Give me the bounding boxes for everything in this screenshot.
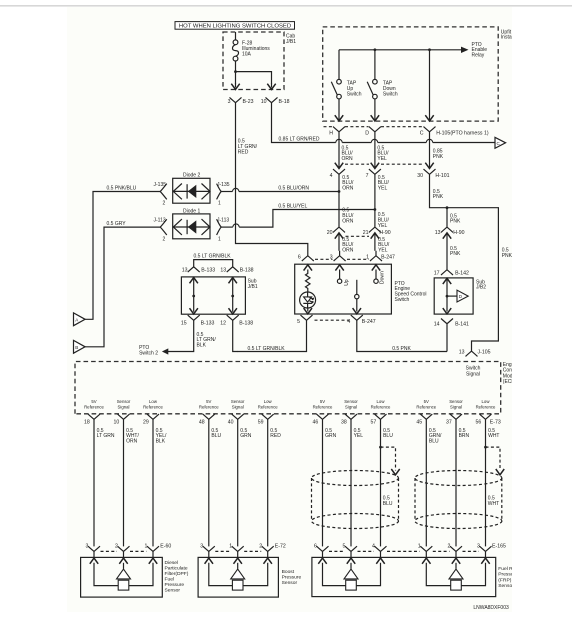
junction dot TAP Down tee <box>374 48 377 51</box>
diode 2 internals <box>173 184 210 200</box>
svg-text:B-247: B-247 <box>362 319 376 325</box>
svg-text:10: 10 <box>114 420 120 426</box>
Diesel Particulate Filter DPF Fuel Pressure Sensor box <box>81 557 163 597</box>
svg-text:BLU: BLU <box>383 433 393 439</box>
wire fuse down to B-23 arrow <box>235 72 237 84</box>
svg-text:YEL: YEL <box>377 156 387 162</box>
svg-text:5: 5 <box>297 319 300 325</box>
svg-text:0.5 PNK/BLU: 0.5 PNK/BLU <box>107 186 137 192</box>
Sub J/B1 box <box>181 277 245 314</box>
relay feed wire down <box>429 50 431 120</box>
connector E-60 pin 1 <box>147 546 159 551</box>
label 0.5 PNK far right (clipped) <box>502 248 513 259</box>
svg-text:1: 1 <box>145 544 148 550</box>
svg-text:12: 12 <box>220 320 226 326</box>
svg-text:1: 1 <box>218 236 221 242</box>
svg-text:Down: Down <box>379 271 385 284</box>
svg-text:LT GRN: LT GRN <box>97 433 115 439</box>
svg-text:Sensor: Sensor <box>449 399 463 404</box>
switch blade common <box>356 280 358 295</box>
connector H-105 pin C <box>424 127 436 132</box>
connector E-73 pin 37 <box>450 414 462 419</box>
svg-text:Low: Low <box>482 399 491 404</box>
wire 0.5 LT GRN/BLK loop over Sub J/B1 <box>194 260 233 267</box>
stem into sensor box <box>455 551 457 557</box>
wire from ECM pin 29 down <box>152 419 154 546</box>
svg-text:J/B1: J/B1 <box>248 284 258 290</box>
connector E-60 pin 3 <box>88 546 100 551</box>
svg-text:Diode 1: Diode 1 <box>183 208 200 214</box>
arrow up into sensor box <box>119 558 127 564</box>
connector E-73 pin 10 <box>118 414 130 419</box>
svg-text:Signal: Signal <box>232 405 244 410</box>
title box HOT WHEN LIGHTING SWITCH CLOSED <box>175 22 295 30</box>
svg-text:38: 38 <box>341 420 347 426</box>
svg-text:ORN: ORN <box>342 248 354 254</box>
connector H-90 pin 13 <box>441 227 453 232</box>
svg-text:5V: 5V <box>91 399 96 404</box>
connector J-135 pin 2 (left) <box>160 184 167 200</box>
connector E-73 pin 46 <box>317 414 329 419</box>
svg-text:WHT: WHT <box>488 501 499 507</box>
connector E-73 pin 45 <box>420 414 432 419</box>
connector B-247 pin 1 <box>370 256 382 261</box>
arrow up Up contact <box>335 265 343 271</box>
scan area tint <box>67 7 512 612</box>
wire 0.5 PNK/BLU from A up to diode 2 <box>85 192 160 320</box>
svg-text:RED: RED <box>270 433 281 439</box>
connector J-113 pin 2 (left) <box>160 219 167 235</box>
svg-text:0.5 LT GRN/BLK: 0.5 LT GRN/BLK <box>248 346 286 352</box>
svg-text:B-133: B-133 <box>201 320 215 326</box>
svg-text:3: 3 <box>477 544 480 550</box>
connector B-247 pin 5 <box>301 315 313 320</box>
svg-text:2: 2 <box>115 544 118 550</box>
svg-text:RED: RED <box>238 149 249 155</box>
arrow up into sensor box <box>347 558 355 564</box>
svg-text:GRN: GRN <box>240 433 252 439</box>
connector chain dashes <box>387 550 420 552</box>
stem into sensor box <box>350 551 352 557</box>
svg-text:13: 13 <box>182 267 188 273</box>
arrow up into sensor box <box>481 558 489 564</box>
shield cylinder <box>312 471 399 486</box>
svg-text:Diode 2: Diode 2 <box>183 173 200 179</box>
svg-text:PNK: PNK <box>433 154 444 160</box>
svg-text:E-73: E-73 <box>490 420 501 426</box>
svg-text:Pressure: Pressure <box>282 575 302 581</box>
arrow up into sensor box <box>90 558 98 564</box>
svg-text:2: 2 <box>163 201 166 207</box>
wire 0.5 BLU/YEL diode1 out <box>221 226 233 228</box>
connector E-73 pin 57 <box>375 414 387 419</box>
svg-text:PNK: PNK <box>502 253 513 259</box>
svg-text:Reference: Reference <box>84 405 104 410</box>
svg-text:ORN: ORN <box>342 186 354 192</box>
stem into sensor box <box>425 551 427 557</box>
connector B-247 pin 4 <box>351 315 363 320</box>
svg-text:45: 45 <box>416 420 422 426</box>
svg-text:2: 2 <box>448 544 451 550</box>
connector H-101 pin 30 <box>425 163 433 169</box>
arrowhead to PTO Switch 2 <box>162 348 168 354</box>
svg-text:14: 14 <box>434 321 440 327</box>
svg-text:18: 18 <box>84 420 90 426</box>
arrow up into sensor box <box>205 558 213 564</box>
junction dot PNK tee <box>446 206 449 209</box>
svg-text:5: 5 <box>343 544 346 550</box>
bus wire to PTO Enable Relay <box>339 49 464 51</box>
arrow up into sensor box <box>452 558 460 564</box>
wire B-247 pin4 down-right to B-141 <box>357 320 447 351</box>
connector chain dashes <box>358 550 375 552</box>
arrow up into sensor box <box>234 558 242 564</box>
svg-text:ORN: ORN <box>126 439 138 445</box>
Sub J/B2 box <box>434 278 473 314</box>
svg-text:5V: 5V <box>206 399 211 404</box>
arrow up Down contact <box>372 265 380 271</box>
Sub J/B1 left internal wire <box>193 277 195 312</box>
svg-text:Relay: Relay <box>472 53 485 59</box>
svg-text:B-141: B-141 <box>455 321 469 327</box>
connector chain dashes <box>130 550 147 552</box>
svg-text:C: C <box>420 130 424 136</box>
transducer symbol <box>426 563 485 586</box>
wire 0.5 BLU/YEL col D lower <box>374 233 376 251</box>
svg-text:1: 1 <box>229 544 232 550</box>
svg-text:2: 2 <box>163 236 166 242</box>
wire from ECM pin 59 down <box>267 419 269 546</box>
wire 0.5 BLU/ORN col H mid <box>338 174 340 227</box>
top gray rule <box>0 5 572 7</box>
arrow up into sensor box <box>422 558 430 564</box>
svg-text:B-133: B-133 <box>201 267 215 273</box>
svg-text:1: 1 <box>366 254 369 260</box>
Upfit dashed box <box>323 27 499 121</box>
transducer symbol <box>323 563 381 586</box>
connector E-73 pin 48 <box>203 414 215 419</box>
svg-text:5V: 5V <box>320 399 325 404</box>
svg-text:Reference: Reference <box>258 405 278 410</box>
Diode 1 box <box>173 214 210 239</box>
connector E-165 pin 1 <box>420 546 432 551</box>
svg-text:0.5 PNK: 0.5 PNK <box>392 346 411 352</box>
wire PNK to far right <box>446 208 499 352</box>
svg-text:4: 4 <box>347 319 350 325</box>
svg-text:Diesel: Diesel <box>165 560 179 566</box>
svg-text:B-23: B-23 <box>243 99 254 105</box>
svg-text:29: 29 <box>143 420 149 426</box>
arrow at box bottom col C <box>425 115 433 121</box>
svg-text:3: 3 <box>200 544 203 550</box>
wire from ECM pin 38 down <box>350 419 352 546</box>
Up contact <box>339 270 341 280</box>
svg-text:13: 13 <box>459 350 465 356</box>
svg-text:Boost: Boost <box>282 569 295 575</box>
svg-text:0.5 GRY: 0.5 GRY <box>107 221 127 227</box>
triangle A <box>74 313 86 326</box>
wire 0.5 BLU/YEL col D mid <box>374 174 376 227</box>
connector J-135 pin 1 (right) <box>217 184 222 200</box>
wire 0.5 PNK to B-142 <box>446 233 448 270</box>
stem into sensor box <box>380 551 382 557</box>
svg-text:B-247: B-247 <box>381 254 395 260</box>
wire 0.85 LT GRN/RED from B-18 right with hops <box>272 103 336 143</box>
arrowhead to relay <box>461 47 469 53</box>
connector B-247 pin 6 <box>302 256 314 261</box>
connector E-73 pin 18 <box>88 414 100 419</box>
svg-text:B-142: B-142 <box>455 271 469 277</box>
svg-text:5V: 5V <box>424 399 429 404</box>
svg-text:Reference: Reference <box>371 405 391 410</box>
svg-text:Switch 2: Switch 2 <box>139 351 158 357</box>
svg-text:30: 30 <box>417 173 423 179</box>
arrow at box bottom col H <box>335 115 343 121</box>
svg-text:6: 6 <box>314 544 317 550</box>
connector H-105 chain dashes <box>324 126 424 128</box>
label Engine Control Module (clipped) <box>503 362 520 385</box>
svg-text:21: 21 <box>363 230 369 236</box>
svg-text:Fuel: Fuel <box>165 577 175 583</box>
svg-text:J/B1: J/B1 <box>286 39 296 45</box>
connector H-105 pin D <box>369 127 381 132</box>
connector E-72 pin 2 <box>262 546 274 551</box>
diode D inside Sub J/B2 <box>447 295 457 297</box>
PTO Engine Speed Control Switch box <box>295 264 392 314</box>
connector J-113 pin 1 (right) <box>217 219 222 235</box>
svg-text:Low: Low <box>377 399 386 404</box>
svg-text:Low: Low <box>264 399 273 404</box>
arrow into box bottom above B-23 <box>231 84 239 90</box>
arrow into box bottom above B-18 <box>267 84 275 90</box>
TAP Down Switch <box>367 50 377 120</box>
connector B-138 pin 13 <box>227 267 239 272</box>
svg-text:3: 3 <box>330 254 333 260</box>
svg-text:PNK: PNK <box>450 219 461 225</box>
connector E-73 pin 59 <box>262 414 274 419</box>
wire from ECM pin 46 down <box>322 419 324 546</box>
arrow up lamp branch <box>304 265 312 271</box>
wire B-247 pin5 down-left to B-138 <box>237 320 306 351</box>
connector B-18 pin 10 <box>266 97 278 102</box>
arrow up into sensor box <box>264 558 272 564</box>
svg-text:20: 20 <box>327 230 333 236</box>
svg-text:B: B <box>75 345 78 350</box>
connector H-105 pin H <box>333 127 345 132</box>
svg-text:BLK: BLK <box>197 343 207 349</box>
ECM dashed box <box>75 362 501 414</box>
connector B-133 pin 15 <box>188 315 200 320</box>
connector B-23 pin 3 <box>230 97 242 102</box>
wire 0.5 PNK col C mid <box>430 174 446 208</box>
svg-text:46: 46 <box>313 420 319 426</box>
svg-text:ORN: ORN <box>342 219 354 225</box>
connector H-90 pin 20 <box>333 227 345 232</box>
svg-text:56: 56 <box>476 420 482 426</box>
svg-text:YEL: YEL <box>354 433 364 439</box>
stem into sensor box <box>267 551 269 557</box>
Sub J/B2 internal wire <box>446 278 448 312</box>
wire from ECM pin 48 down <box>208 419 210 546</box>
wire 0.5 BLU/ORN diode2 out <box>221 191 232 193</box>
connector E-73 pin 29 <box>147 414 159 419</box>
junction dot diode2 join <box>338 190 341 193</box>
wire 0.5 BLU/ORN col H lower <box>338 233 340 251</box>
svg-text:GRN: GRN <box>325 433 337 439</box>
svg-text:Pressure: Pressure <box>165 582 185 588</box>
svg-text:17: 17 <box>434 271 440 277</box>
svg-text:Low: Low <box>149 399 158 404</box>
svg-text:J-113: J-113 <box>217 217 229 223</box>
svg-text:0.5 BLU/ORN: 0.5 BLU/ORN <box>278 186 309 192</box>
connector E-72 pin 3 <box>203 546 215 551</box>
svg-text:H-105(PTO harness 1): H-105(PTO harness 1) <box>436 130 489 136</box>
svg-text:ORN: ORN <box>342 156 354 162</box>
wire B-133/15 to PTO Switch 2 <box>168 320 194 351</box>
svg-text:B-18: B-18 <box>279 99 290 105</box>
svg-text:13: 13 <box>435 230 441 236</box>
svg-text:E-60: E-60 <box>160 544 171 550</box>
svg-text:H-101: H-101 <box>435 173 449 179</box>
svg-text:J-135: J-135 <box>217 182 230 188</box>
svg-text:YEL: YEL <box>378 223 388 229</box>
svg-text:Signal: Signal <box>118 405 130 410</box>
connector E-60 pin 2 <box>118 546 130 551</box>
svg-text:13: 13 <box>220 267 226 273</box>
Down contact <box>375 270 377 280</box>
transducer symbol <box>209 563 268 586</box>
wire from ECM pin 40 down <box>237 419 239 546</box>
svg-text:Sensor: Sensor <box>344 399 358 404</box>
connector E-73 pin 40 <box>232 414 244 419</box>
svg-text:10A: 10A <box>242 51 252 57</box>
connector H-101 chain dashes <box>345 163 423 165</box>
svg-text:J-105: J-105 <box>478 350 491 356</box>
stems into B-247 pins <box>340 251 376 256</box>
svg-text:Reference: Reference <box>199 405 219 410</box>
Cab J/B1 dashed box <box>223 32 284 90</box>
wire 0.5 GRY from B up to diode 1 <box>85 227 160 347</box>
junction dot diode1 join <box>374 208 377 211</box>
stem into sensor box <box>123 551 125 557</box>
stem into sensor box <box>322 551 324 557</box>
diode 1 internals <box>173 219 210 235</box>
stem into sensor box <box>152 551 154 557</box>
svg-text:Sensor: Sensor <box>498 583 514 589</box>
svg-text:57: 57 <box>371 420 377 426</box>
stem into sensor box <box>237 551 239 557</box>
svg-text:PNK: PNK <box>450 251 461 257</box>
connector chain dashes <box>101 550 118 552</box>
arrow at box bottom col D <box>371 115 379 121</box>
connector B-141 pin 14 <box>441 319 453 324</box>
svg-text:3: 3 <box>86 544 89 550</box>
connector E-73 pin 56 <box>480 414 492 419</box>
svg-text:BRN: BRN <box>459 433 470 439</box>
junction at fuse output <box>234 70 237 73</box>
svg-text:Switch: Switch <box>347 91 362 97</box>
svg-text:E-72: E-72 <box>275 544 286 550</box>
svg-text:59: 59 <box>258 420 264 426</box>
svg-text:Switch: Switch <box>383 91 398 97</box>
fuse F-28 Illuminations 10A <box>232 32 238 72</box>
svg-text:Signal: Signal <box>466 371 480 377</box>
shield drain wire <box>379 446 382 449</box>
wire from ECM pin 18 down <box>93 419 95 546</box>
svg-text:BLU: BLU <box>383 501 393 507</box>
shield drain wire <box>484 446 487 449</box>
svg-text:B-138: B-138 <box>239 320 253 326</box>
svg-text:H: H <box>329 130 333 136</box>
svg-text:Sensor: Sensor <box>231 399 245 404</box>
svg-text:1: 1 <box>418 544 421 550</box>
wire 0.85 PNK col C upper <box>429 132 431 167</box>
Sub J/B1 right internal wire <box>232 277 234 312</box>
svg-text:0.5 BLU/YEL: 0.5 BLU/YEL <box>278 204 307 210</box>
connector B-133 pin 13 <box>188 267 200 272</box>
Diode 2 box <box>173 178 210 203</box>
label Upfit Installed (clipped at right) <box>501 29 520 40</box>
connector chain dashes <box>463 550 480 552</box>
svg-text:4: 4 <box>330 173 333 179</box>
connector E-165 pin 5 <box>345 546 357 551</box>
svg-text:H-90: H-90 <box>453 230 464 236</box>
svg-text:1: 1 <box>218 201 221 207</box>
Boost Pressure Sensor box <box>198 557 278 597</box>
svg-text:37: 37 <box>446 420 452 426</box>
svg-text:10: 10 <box>261 99 267 105</box>
stem into sensor box <box>208 551 210 557</box>
connector B-142 pin 17 <box>441 270 453 275</box>
svg-text:40: 40 <box>228 420 234 426</box>
LED indicator <box>300 292 316 308</box>
svg-text:BLU: BLU <box>211 433 221 439</box>
svg-text:Reference: Reference <box>143 405 163 410</box>
arrow up into sensor box <box>149 558 157 564</box>
svg-text:YEL: YEL <box>378 248 388 254</box>
resistor <box>306 270 311 292</box>
svg-text:WHT: WHT <box>488 433 499 439</box>
svg-text:LNWA8DXF003: LNWA8DXF003 <box>473 605 509 611</box>
svg-text:PNK: PNK <box>433 194 444 200</box>
connector E-165 pin 3 <box>480 546 492 551</box>
off-page arrow C <box>495 137 506 148</box>
svg-text:Reference: Reference <box>416 405 436 410</box>
arrow up into sensor box <box>376 558 384 564</box>
svg-text:0.85 LT GRN/RED: 0.85 LT GRN/RED <box>279 137 320 143</box>
triangle B <box>74 340 86 353</box>
wire from ECM pin 37 down <box>455 419 457 546</box>
svg-text:3: 3 <box>228 99 231 105</box>
wire 0.5 BLU/YEL col D upper <box>374 132 376 167</box>
svg-text:Particulate: Particulate <box>165 566 188 572</box>
stem into sensor box <box>485 551 487 557</box>
transducer symbol <box>94 563 153 586</box>
shield cylinder <box>415 471 502 486</box>
connector E-165 pin 6 <box>317 546 329 551</box>
svg-text:Signal: Signal <box>345 405 357 410</box>
svg-text:D: D <box>365 130 369 136</box>
svg-text:(FRP): (FRP) <box>498 577 511 583</box>
wire from ECM pin 45 down <box>425 419 427 546</box>
svg-text:Sensor: Sensor <box>282 580 298 586</box>
svg-text:J-135: J-135 <box>154 182 167 188</box>
svg-text:YEL: YEL <box>378 186 388 192</box>
Fuel Rail Pressure FRP Sensor box <box>312 557 496 596</box>
svg-text:Reference: Reference <box>476 405 496 410</box>
connector chain dashes <box>215 550 231 552</box>
connector chain dashes <box>244 550 261 552</box>
